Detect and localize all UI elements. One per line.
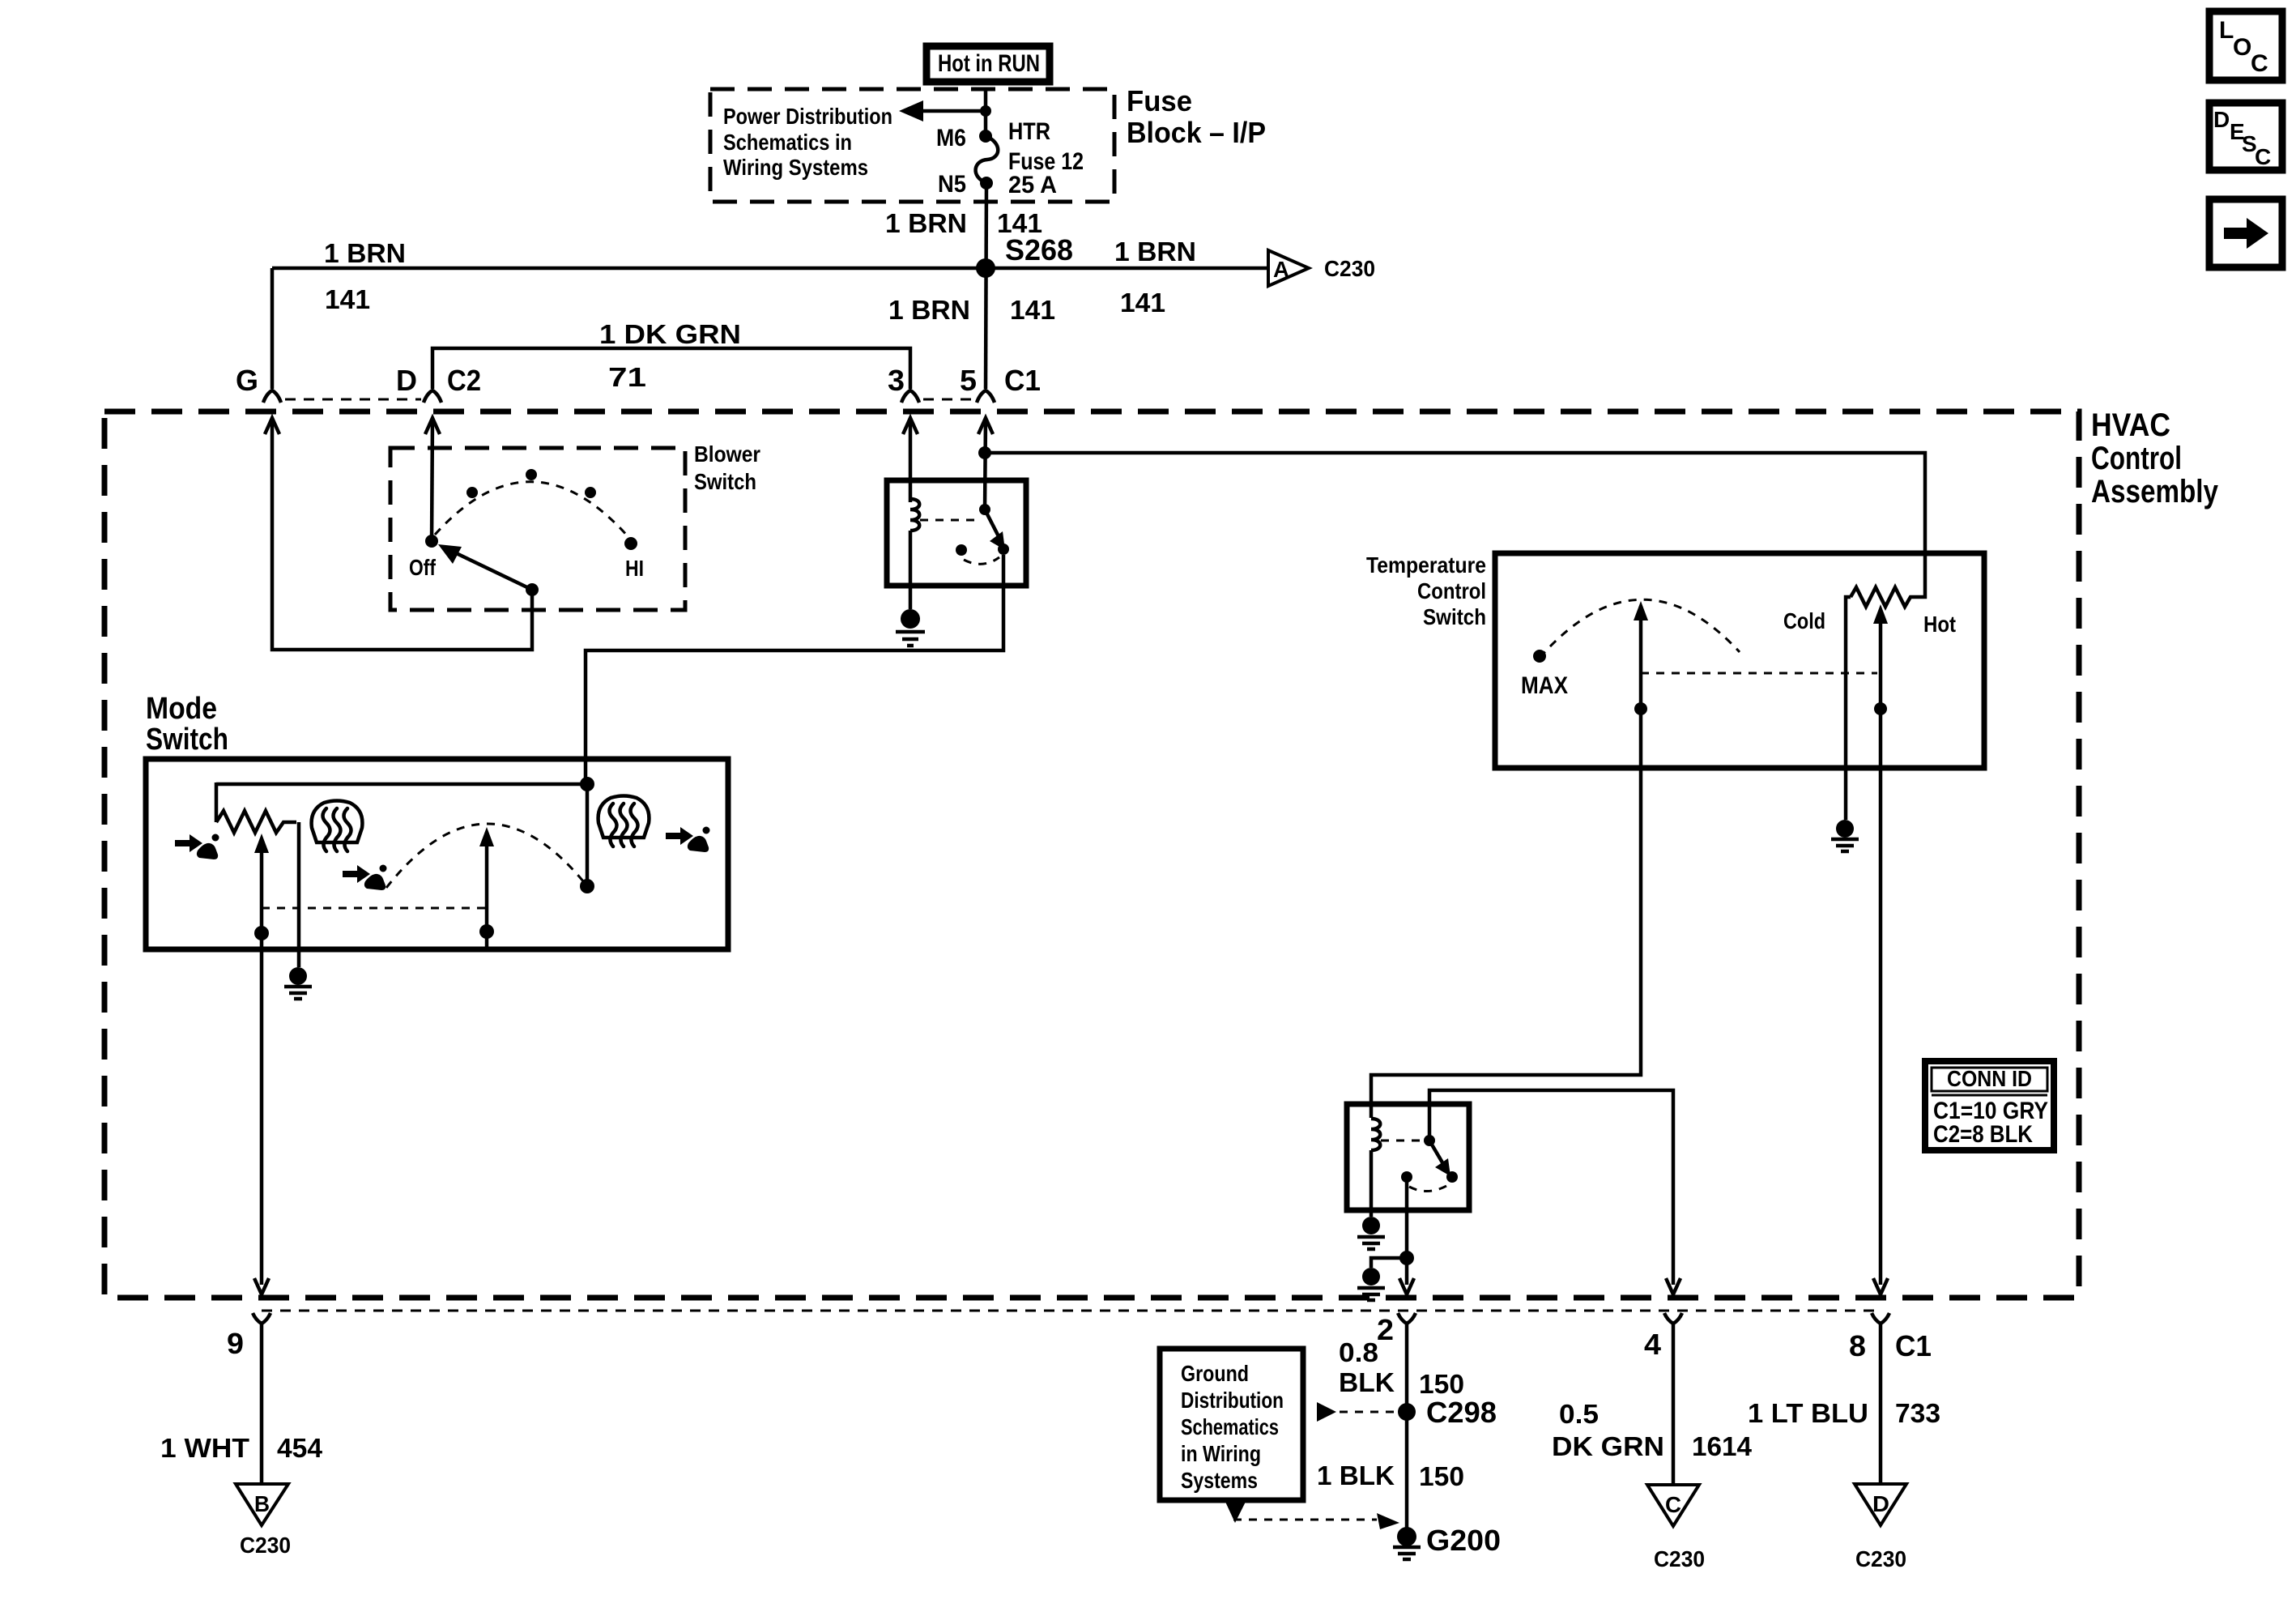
svg-text:1 BRN: 1 BRN (324, 238, 406, 268)
svg-text:MAX: MAX (1521, 672, 1568, 699)
ground temperature switch (1831, 820, 1859, 851)
A/C relay coil (1371, 1119, 1380, 1217)
svg-text:HI: HI (625, 556, 644, 581)
pin 5 C1 (960, 364, 1041, 403)
label 0.8 BLK 150 (1339, 1337, 1464, 1399)
icon forward arrow button (2209, 199, 2282, 267)
pin 3 (888, 364, 919, 403)
svg-text:1 BRN: 1 BRN (888, 295, 970, 325)
temp dashed travel arc (1540, 599, 1740, 658)
icon vent-to-seat right (666, 827, 710, 853)
svg-text:Switch: Switch (146, 723, 228, 757)
resistor temperature control (1851, 587, 1914, 607)
temp dashed level line (1641, 672, 1877, 675)
blower relay switch (920, 504, 1009, 564)
svg-text:Distribution: Distribution (1181, 1388, 1284, 1413)
svg-text:Temperature: Temperature (1366, 552, 1486, 578)
wire feed to temperature control resistor (985, 453, 1925, 597)
wire A/C relay common from pin 4 (1429, 1090, 1673, 1285)
wire pin 3 inside arrow up into relay coil (903, 418, 918, 502)
svg-text:D: D (1872, 1491, 1889, 1516)
node junction to temperature switch feed (978, 446, 991, 459)
wire pin D inside arrow up to blower wiper Off (425, 418, 440, 541)
temp MAX arrow to AC relay coil (1371, 601, 1648, 1118)
pin G (236, 364, 281, 403)
wire junction to second ground (1371, 1258, 1407, 1268)
label Fuse Block - I/P (1127, 84, 1266, 149)
svg-text:Block – I/P: Block – I/P (1127, 116, 1266, 149)
mode center position arrow (479, 827, 494, 948)
wire mode selected position (580, 784, 594, 893)
svg-text:1 LT BLU: 1 LT BLU (1748, 1398, 1868, 1428)
svg-text:Switch: Switch (694, 469, 756, 494)
icon LOC button (2209, 11, 2282, 80)
wire resistor to ground (297, 822, 301, 967)
wire BRN bus left (272, 266, 986, 271)
mode switch feed bus (216, 777, 594, 822)
svg-text:A: A (1273, 257, 1289, 282)
svg-text:1 WHT: 1 WHT (160, 1433, 249, 1463)
svg-text:C230: C230 (1324, 256, 1375, 281)
temperature control switch box (1495, 553, 1984, 768)
svg-text:Control: Control (1417, 578, 1486, 603)
wire pin 5 inside arrow up into relay switch (978, 418, 993, 510)
wire pin G inside arrow up (265, 418, 532, 650)
connector body thin dashed line bottom (262, 1310, 1881, 1312)
svg-text:L: L (2219, 17, 2234, 44)
svg-text:454: 454 (277, 1433, 323, 1463)
svg-text:C230: C230 (240, 1533, 291, 1558)
svg-text:1 BLK: 1 BLK (1317, 1460, 1395, 1490)
svg-text:Power Distribution: Power Distribution (723, 104, 892, 129)
wire pin 4 to connector C (1672, 1324, 1676, 1485)
wire hot feed into fuse (984, 89, 988, 134)
wire pin 8 to connector D (1879, 1324, 1883, 1484)
svg-text:1 BRN: 1 BRN (1114, 237, 1196, 266)
icon vent-to-seat middle (343, 865, 387, 891)
label 1 BRN 141 below S268 (888, 295, 1055, 325)
svg-text:M6: M6 (936, 125, 966, 151)
ground A/C relay output (1357, 1268, 1385, 1300)
wire cold end to ground (1846, 597, 1851, 820)
svg-text:Control: Control (2091, 441, 2182, 476)
ground mode switch (284, 967, 312, 999)
icon defrost left (312, 801, 363, 852)
svg-text:HVAC: HVAC (2091, 407, 2170, 443)
pin 9 exit arrow and fork (227, 1278, 270, 1360)
label Cold / Hot (1783, 608, 1956, 637)
svg-text:G200: G200 (1426, 1524, 1501, 1557)
label 1 LT BLU 733 (1748, 1398, 1940, 1428)
label Blower Switch (694, 441, 760, 494)
svg-text:C: C (2251, 50, 2268, 77)
svg-text:C230: C230 (1654, 1546, 1705, 1571)
off-page connector B C230 (236, 1484, 291, 1558)
wire blower relay output to mode switch (586, 555, 1003, 784)
svg-text:Schematics: Schematics (1181, 1414, 1279, 1439)
label Power Distribution Schematics in Wiring Systems (723, 104, 892, 180)
ground blower relay coil (896, 609, 925, 646)
svg-text:CONN ID: CONN ID (1947, 1066, 2032, 1091)
wire pin 2 to G200 (1405, 1324, 1409, 1529)
svg-text:Fuse: Fuse (1127, 84, 1192, 117)
pin 2 exit arrow and fork (1377, 1278, 1416, 1346)
ground G200 (1393, 1524, 1501, 1559)
label 0.5 DK GRN 1614 (1552, 1399, 1753, 1461)
svg-text:2: 2 (1377, 1313, 1394, 1346)
off-page connector D C230 (1855, 1484, 1906, 1571)
A/C relay switch (1381, 1135, 1458, 1192)
node junction to second ground (1399, 1251, 1414, 1265)
svg-text:C: C (1665, 1492, 1681, 1517)
svg-text:Assembly: Assembly (2091, 474, 2219, 510)
svg-text:Wiring Systems: Wiring Systems (723, 155, 868, 180)
svg-text:BLK: BLK (1339, 1367, 1395, 1397)
svg-text:Schematics in: Schematics in (723, 130, 852, 155)
arrow to power distribution (899, 100, 991, 122)
svg-text:Systems: Systems (1181, 1468, 1258, 1493)
ground A/C relay coil (1357, 1217, 1385, 1249)
svg-text:C: C (2255, 144, 2271, 169)
svg-text:DK GRN: DK GRN (1552, 1431, 1664, 1461)
blower switch contacts and arc (409, 469, 644, 581)
blower switch dashed box (390, 448, 685, 610)
connector dashes 3 to 5 (923, 399, 974, 401)
A/C relay box (1347, 1104, 1469, 1210)
svg-text:141: 141 (325, 284, 370, 314)
svg-text:1 DK GRN: 1 DK GRN (599, 319, 741, 349)
svg-text:25 A: 25 A (1008, 172, 1057, 198)
svg-text:D: D (396, 364, 417, 397)
label 1 BLK 150 (1317, 1460, 1464, 1491)
svg-text:733: 733 (1895, 1398, 1940, 1428)
fuse F12 HTR 25A (936, 118, 1084, 198)
icon vent-to-seat left (175, 834, 219, 860)
resistor mode switch (216, 811, 296, 833)
wire fuse output down to S268 (986, 183, 986, 389)
HVAC control assembly dashed box (104, 411, 2079, 1298)
label Temperature Control Switch (1366, 552, 1486, 629)
svg-text:Off: Off (409, 555, 437, 580)
svg-text:1614: 1614 (1692, 1431, 1753, 1461)
svg-text:C2: C2 (447, 364, 481, 397)
svg-text:C298: C298 (1426, 1396, 1497, 1429)
svg-text:Ground: Ground (1181, 1361, 1249, 1386)
node MAX contact (1521, 650, 1568, 699)
svg-text:S268: S268 (1005, 233, 1073, 266)
svg-text:O: O (2233, 34, 2251, 61)
pin D C2 (396, 364, 481, 403)
svg-text:4: 4 (1644, 1328, 1661, 1361)
temp wiper arrow to pin 8 (1873, 604, 1888, 1285)
dashed branch into C298 (1317, 1402, 1398, 1422)
fuse block dashed box (710, 89, 1114, 202)
wire pin 9 to connector B (260, 1324, 264, 1484)
label HVAC Control Assembly (2091, 407, 2219, 510)
svg-text:C1: C1 (1004, 364, 1041, 397)
node S268 (976, 233, 1073, 278)
svg-text:5: 5 (960, 364, 977, 397)
svg-text:C2=8 BLK: C2=8 BLK (1933, 1121, 2033, 1148)
svg-text:150: 150 (1419, 1461, 1464, 1491)
label 1 BRN 141 above S268 (885, 208, 1042, 238)
svg-text:G: G (236, 364, 258, 397)
svg-text:141: 141 (1010, 295, 1055, 325)
wire NC contact to pin 2 (1405, 1177, 1409, 1285)
svg-text:71: 71 (608, 362, 646, 392)
svg-text:150: 150 (1419, 1369, 1464, 1399)
svg-text:141: 141 (1120, 288, 1165, 318)
off-page connector A C230 (1268, 250, 1375, 286)
svg-text:Switch: Switch (1423, 604, 1486, 629)
mode switch box (146, 759, 728, 949)
mode dashed travel arc (386, 824, 587, 888)
svg-text:Hot: Hot (1923, 612, 1956, 637)
blower switch wiper arm (438, 544, 539, 596)
wire 1 DK GRN from D to 3 (432, 348, 910, 389)
mode wiper arrow to pin 9 (254, 834, 269, 1285)
blower relay box (887, 480, 1026, 586)
svg-text:Mode: Mode (146, 692, 217, 726)
wire BRN bus right to A (986, 266, 1268, 271)
icon defrost right (598, 796, 650, 847)
icon DESC button (2209, 103, 2282, 170)
svg-text:8: 8 (1849, 1329, 1866, 1362)
svg-text:Hot in RUN: Hot in RUN (938, 50, 1040, 77)
label 1 BRN 141 right branch (1114, 237, 1196, 318)
mode dashed level line (262, 907, 487, 910)
connector dashes G to D (285, 399, 421, 401)
svg-text:9: 9 (227, 1327, 244, 1360)
dashed branch from ground distribution to G200 (1225, 1502, 1399, 1529)
svg-text:0.5: 0.5 (1559, 1399, 1599, 1429)
label Mode Switch (146, 692, 228, 757)
svg-text:B: B (254, 1491, 270, 1516)
svg-text:Cold: Cold (1783, 608, 1825, 633)
svg-text:D: D (2213, 107, 2230, 132)
svg-text:0.8: 0.8 (1339, 1337, 1378, 1367)
svg-text:C1: C1 (1895, 1329, 1932, 1362)
svg-text:N5: N5 (938, 171, 966, 198)
svg-text:HTR: HTR (1008, 118, 1050, 145)
svg-text:1 BRN: 1 BRN (885, 208, 967, 238)
node Hot in RUN (926, 46, 1050, 82)
wire BRN down-left to pin G (270, 268, 275, 389)
pin 4 exit arrow and fork (1644, 1278, 1682, 1361)
ground distribution reference box (1160, 1349, 1303, 1500)
svg-text:3: 3 (888, 364, 905, 397)
blower relay coil (910, 499, 919, 609)
pin 8 exit arrow and fork (1849, 1278, 1932, 1362)
label 1 BRN 141 left branch (324, 238, 406, 314)
node C298 (1398, 1396, 1497, 1429)
CONN ID table (1925, 1061, 2054, 1150)
svg-text:in Wiring: in Wiring (1181, 1441, 1261, 1466)
svg-text:Blower: Blower (694, 441, 760, 467)
label 1 DK GRN 71 (599, 319, 741, 392)
off-page connector C C230 (1647, 1485, 1705, 1571)
svg-text:C230: C230 (1855, 1546, 1906, 1571)
label 1 WHT 454 (160, 1433, 323, 1463)
